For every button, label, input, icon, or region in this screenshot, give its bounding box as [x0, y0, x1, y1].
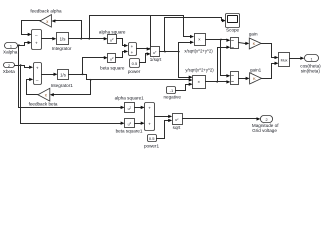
wire sqrt to outport 2 [183, 118, 257, 120]
svg-text:power1: power1 [144, 143, 160, 148]
product block x/sqrt(x^2+y^2) [195, 34, 206, 46]
wire x up and over to product xsqrt [89, 16, 91, 39]
wire Xbeta down to beta square1 [20, 66, 22, 124]
svg-text:y/sqrt(x^2+y^2): y/sqrt(x^2+y^2) [185, 68, 214, 73]
wire y up to beta square [82, 58, 84, 75]
svg-text:alpha square: alpha square [99, 29, 126, 34]
svg-text:Integrator1: Integrator1 [51, 83, 74, 88]
svg-text:negative: negative [164, 95, 182, 100]
svg-text:K: K [253, 76, 256, 81]
math power block u^v sqrt [173, 114, 183, 125]
wire mux to outport [290, 58, 301, 60]
svg-text:+: + [148, 121, 151, 126]
wire alpha square to sum2 [117, 38, 123, 40]
node feedback tap on sum2 wire [149, 48, 151, 50]
wire sum2 to 1/sqrt [137, 48, 148, 50]
wire feedback beta input from integrator1 out [90, 80, 92, 95]
svg-text:gain: gain [249, 32, 258, 37]
wire product y to reshape B [206, 81, 227, 83]
outport Out1 cos sin [305, 55, 319, 62]
node to scope [164, 51, 166, 53]
wire A to gain [239, 43, 246, 44]
gain block gain1 (right triangle) [250, 73, 262, 84]
math block u^2 beta square1 [125, 119, 135, 128]
svg-text:Mux: Mux [281, 59, 288, 63]
wire Xalpha to sum [18, 45, 25, 47]
node to products [178, 51, 180, 53]
outport Out2 magnitude [261, 116, 273, 123]
product block y/sqrt(x^2+y^2) [193, 76, 206, 89]
wire 1/sqrt to product y (lower branch) [178, 52, 180, 78]
svg-text:1/sqrt: 1/sqrt [150, 57, 162, 62]
svg-text:+: + [131, 44, 134, 49]
scope block Scope [226, 14, 240, 28]
node integrator1 out to beta square [82, 73, 84, 75]
wire product x to reshape A [206, 39, 227, 41]
svg-text:feedback alpha: feedback alpha [30, 9, 62, 14]
node Xalpha branch [18, 44, 20, 46]
block B (2-in) [231, 72, 239, 85]
svg-text:1: 1 [10, 44, 12, 48]
sum block Sum1 (+-) beta [34, 63, 42, 85]
wire feedback alpha input from integrator out [81, 21, 83, 39]
wire gain1 to mux [262, 78, 272, 80]
wire feedback alpha output to sum minus [22, 20, 41, 22]
wire 1/sqrt to product x (upper branch) [178, 43, 180, 52]
svg-text:power: power [128, 69, 141, 74]
math power block u^v 1/sqrt [151, 47, 160, 57]
constant block 0.5 power1 [148, 135, 157, 142]
wire feedback beta output to sum1 minus [27, 94, 38, 96]
constant block 0.5 power [130, 59, 140, 68]
svg-text:Xbeta: Xbeta [3, 69, 15, 74]
inport In2 Xbeta [4, 63, 15, 68]
svg-text:+: + [36, 66, 39, 71]
wire Xalpha down to alpha square1 [18, 46, 20, 108]
svg-text:Integrator: Integrator [52, 46, 72, 51]
svg-text:K: K [253, 41, 256, 46]
mux block Mux [279, 53, 290, 67]
integrator block 1/s Integrator [57, 33, 69, 45]
node Xbeta branch [20, 64, 22, 66]
svg-text:1/s: 1/s [60, 36, 66, 41]
wire Xbeta to sum [15, 65, 25, 67]
svg-text:–: – [36, 78, 39, 83]
inport In1 Xalpha [5, 43, 18, 49]
integrator block 1/s Integrator1 [58, 70, 69, 80]
node x out branch [220, 39, 222, 41]
wire gain to mux [262, 43, 272, 45]
svg-text:beta square: beta square [100, 66, 125, 71]
wire power to sqrt exponent [140, 62, 146, 64]
node y out branch [216, 81, 218, 83]
wire up to scope [164, 18, 166, 52]
svg-text:–: – [35, 33, 38, 38]
math block u^2 alpha square1 [125, 103, 135, 113]
svg-text:sin(theta): sin(theta) [301, 69, 321, 74]
block A (2-in) [231, 38, 239, 49]
svg-text:2: 2 [8, 64, 10, 68]
svg-text:+: + [35, 41, 38, 46]
svg-text:gain1: gain1 [250, 67, 262, 72]
svg-text:1: 1 [311, 57, 313, 61]
wire integrator1 out, jog down to long y wire [69, 74, 87, 76]
svg-text:feedback beta: feedback beta [29, 101, 58, 106]
wire sum1 to Integrator1 [42, 74, 54, 76]
svg-text:0.5: 0.5 [149, 136, 155, 141]
wire B to gain1 [239, 78, 247, 80]
svg-text:Scope: Scope [226, 28, 239, 33]
math block u^2 alpha square [108, 35, 117, 44]
svg-text:x/sqrt(x^2+y^2): x/sqrt(x^2+y^2) [184, 48, 213, 53]
wire x branch down to B [220, 40, 222, 76]
svg-text:sqrt: sqrt [173, 125, 181, 130]
svg-text:Xalpha: Xalpha [3, 49, 18, 54]
sum block Sum2 (++) [129, 43, 137, 56]
wire beta square to sum2 [116, 57, 123, 59]
gain feedback beta (left pointing triangle) [38, 88, 50, 101]
wire alpha square1 to sum3 [135, 107, 142, 109]
svg-text:1/s: 1/s [60, 72, 66, 77]
wire power1 to sqrt exponent [157, 138, 165, 140]
gain block gain (right triangle) [249, 38, 261, 49]
constant block -1 negative [167, 87, 176, 94]
svg-text:Grid voltage: Grid voltage [252, 128, 277, 133]
wire 1/sqrt output [160, 51, 179, 53]
wire beta square1 to sum3 [135, 123, 142, 125]
wire negative to product y [176, 90, 186, 92]
svg-text:+: + [148, 106, 151, 111]
svg-text:0.5: 0.5 [132, 61, 138, 66]
svg-text:beta square1: beta square1 [116, 128, 143, 133]
svg-text:alpha square1: alpha square1 [115, 95, 145, 100]
sum block Sum3 (++) tall [145, 103, 155, 131]
wire tap up to top rail [150, 16, 152, 49]
svg-text:2: 2 [266, 118, 268, 122]
math block u^2 beta square [108, 54, 116, 63]
svg-text:+: + [131, 50, 134, 55]
wire sum to Integrator [42, 38, 53, 40]
node integrator out to x-path [88, 38, 90, 40]
wire y branch up to A [217, 48, 219, 82]
wire integrator out to alpha square [69, 38, 105, 40]
sum block Sum (+-) alpha [32, 30, 42, 50]
wire sum3 to sqrt [155, 116, 169, 118]
gain feedback alpha (left pointing triangle) [40, 15, 51, 28]
